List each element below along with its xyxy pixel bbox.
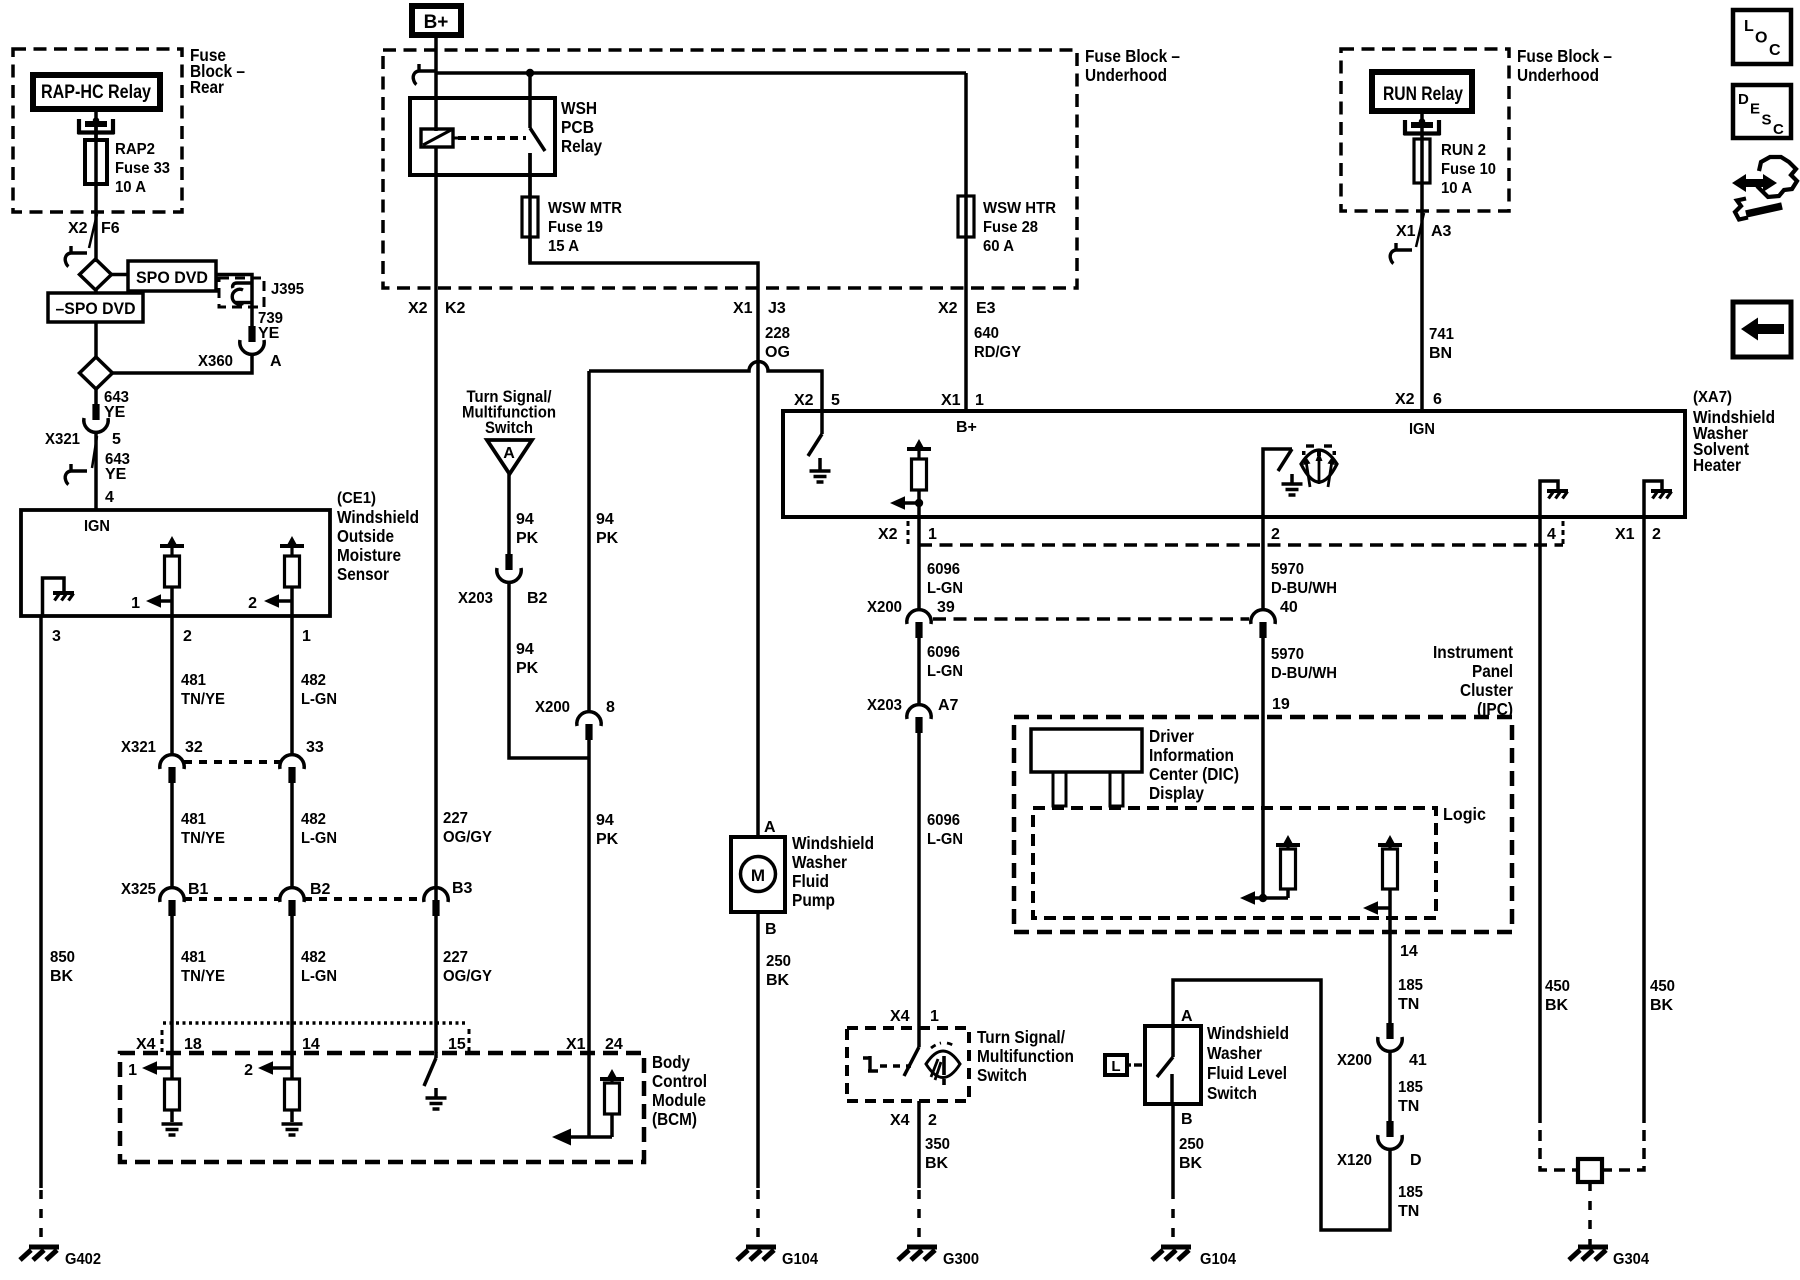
svg-text:Fuse 33: Fuse 33 [115,160,170,177]
svg-text:2: 2 [248,595,257,612]
svg-text:L: L [1111,1058,1120,1075]
svg-text:481: 481 [181,672,206,689]
svg-text:X321: X321 [45,431,80,448]
svg-text:250: 250 [766,953,791,970]
ground G304 [1569,1247,1608,1260]
svg-text:94: 94 [516,511,534,528]
heater internal ground pin X1/2 [1644,481,1662,517]
wire X360 to splice S2 [112,354,252,373]
ground G300 [898,1247,937,1260]
svg-text:G304: G304 [1613,1251,1649,1268]
svg-text:Fluid Level: Fluid Level [1207,1063,1287,1083]
svg-text:B3: B3 [452,880,473,897]
svg-text:A3: A3 [1431,223,1452,240]
wire 643 YE to sensor [94,432,98,510]
svg-text:X203: X203 [867,697,902,714]
svg-text:450: 450 [1650,978,1675,995]
svg-text:M: M [751,866,765,885]
svg-text:2: 2 [244,1062,253,1079]
svg-text:A: A [503,445,515,462]
svg-text:Switch: Switch [485,418,533,437]
fuse RUN 2 Fuse 10 10A [1414,139,1430,183]
wire 350 BK [917,1101,921,1188]
svg-text:Rear: Rear [190,77,224,97]
svg-text:G104: G104 [1200,1251,1236,1268]
svg-text:450: 450 [1545,978,1570,995]
svg-text:SPO DVD: SPO DVD [136,268,208,287]
svg-text:B: B [765,921,777,938]
svg-text:O: O [1755,30,1767,47]
svg-text:(CE1): (CE1) [337,490,376,507]
BCM switch ground [426,1098,447,1109]
splice pack connector [1578,1159,1602,1182]
L box tab [1127,1063,1131,1066]
junction [1259,894,1267,902]
svg-text:D-BU/WH: D-BU/WH [1271,580,1337,597]
heater internal ground pin 4 [1540,481,1558,517]
svg-text:X1: X1 [566,1036,586,1053]
coil nub [453,137,458,140]
svg-text:481: 481 [181,949,206,966]
svg-text:B+: B+ [956,419,977,436]
connector X200 pin 40 [1251,610,1275,638]
connector X321 pin 5 [84,404,108,432]
svg-text:2: 2 [1652,526,1661,543]
fuse WSW HTR Fuse 28 60A [958,196,974,237]
svg-text:482: 482 [301,811,326,828]
svg-text:3: 3 [52,628,61,645]
svg-text:Information: Information [1149,745,1234,765]
X4 dotted connector line [163,1021,467,1025]
fuse RAP2 Fuse 33 10A [85,140,107,184]
back arrow [1741,318,1784,341]
sensor driver 2 [280,536,304,546]
svg-text:L: L [1744,18,1754,35]
wire 94 PK riser [587,371,591,712]
wire 350 BK dashed [917,1190,921,1245]
wire 94 PK 2 [509,582,589,758]
svg-text:Windshield: Windshield [1207,1023,1289,1043]
svg-text:39: 39 [937,599,955,616]
svg-text:Washer: Washer [1207,1043,1262,1063]
svg-text:L-GN: L-GN [301,691,337,708]
svg-text:BK: BK [925,1155,949,1172]
wire 250 BK level dashed [1171,1190,1175,1245]
svg-text:6: 6 [1433,391,1442,408]
heater internal driver [907,439,931,449]
svg-text:D: D [1410,1152,1422,1169]
relay linkage dashed [458,136,526,140]
svg-text:F6: F6 [101,220,120,237]
wire splice to -SPO DVD [94,290,98,293]
wire switch to corner [528,153,532,263]
svg-text:X200: X200 [1337,1052,1372,1069]
svg-text:BK: BK [50,968,74,985]
svg-text:1: 1 [928,526,937,543]
wire through fuse [94,123,98,212]
wire 185 TN loop to level switch [1173,980,1390,1230]
X325 dashed link 1 [184,897,281,901]
junction [915,499,923,507]
wire 482 L-GN [290,616,294,755]
connector X203 pin B2 [497,554,521,582]
svg-text:B1: B1 [188,881,209,898]
svg-text:6096: 6096 [927,561,960,578]
pump motor M [741,857,776,892]
wire 5970 D-BU/WH [1261,517,1265,610]
svg-text:60 A: 60 A [983,238,1014,255]
svg-text:RAP2: RAP2 [115,141,155,158]
arrow output 1 [146,594,161,608]
svg-text:Moisture: Moisture [337,545,401,565]
svg-text:185: 185 [1398,1079,1423,1096]
pin slant X1/A3 [1416,213,1424,247]
svg-text:X120: X120 [1337,1152,1372,1169]
heater ground 2 [1282,484,1303,495]
svg-text:X2: X2 [938,300,958,317]
clip at X1/A3 [1390,243,1412,264]
coil diagonal [423,130,451,145]
wire 741 BN [1420,111,1424,411]
heater mini ground 1 [1547,491,1568,499]
IPC driver 2 [1378,835,1402,845]
svg-text:4: 4 [105,489,114,506]
svg-text:RAP-HC Relay: RAP-HC Relay [41,82,151,103]
svg-text:40: 40 [1280,599,1298,616]
svg-text:Fuse Block –: Fuse Block – [1517,46,1612,66]
washer switch contact [863,1056,878,1071]
wire 6096 L-GN [917,517,921,610]
wire 94 PK [507,474,511,554]
wire B+ bus [436,71,966,75]
svg-text:X4: X4 [890,1112,910,1129]
wire 185 TN [1388,932,1392,1024]
wire 185 TN 2 [1388,1051,1392,1121]
svg-text:B+: B+ [424,12,449,33]
arrow BCM washer input [552,1129,571,1146]
windshield outside moisture sensor box CE1 [21,510,330,616]
svg-text:E: E [1750,101,1760,118]
svg-text:Fluid: Fluid [792,871,829,891]
svg-text:94: 94 [516,641,534,658]
svg-text:L-GN: L-GN [927,831,963,848]
svg-text:X325: X325 [121,881,156,898]
divider 15 [468,1029,471,1052]
connector X200 pin 8 [577,712,601,740]
svg-text:(XA7): (XA7) [1693,389,1732,406]
svg-text:WSW MTR: WSW MTR [548,200,622,217]
svg-text:G402: G402 [65,1251,101,1268]
svg-text:B: B [1181,1111,1193,1128]
wire 481 TN/YE 3 [170,915,174,1053]
svg-text:4: 4 [1547,526,1556,543]
wire 6096 L-GN 3 [917,732,921,1028]
wire 6096 L-GN 2 [917,637,921,705]
svg-text:2: 2 [1271,526,1280,543]
svg-text:6096: 6096 [927,812,960,829]
svg-text:WSW HTR: WSW HTR [983,200,1056,217]
connector X120 pin D [1378,1121,1402,1149]
wire 450 BK left dashed [1540,1112,1578,1170]
wire 250 BK dashed [756,1190,760,1245]
svg-text:185: 185 [1398,1184,1423,1201]
svg-text:Fuse Block –: Fuse Block – [1085,46,1180,66]
wire 640 RD/GY full [964,73,968,411]
body control module dashed box [120,1053,644,1162]
svg-text:250: 250 [1179,1136,1204,1153]
splice S1 [80,259,112,290]
svg-text:5970: 5970 [1271,561,1304,578]
svg-text:TN: TN [1398,996,1419,1013]
svg-text:2: 2 [928,1112,937,1129]
RAP-HC Relay box [33,75,160,109]
wire fuse to splice [94,212,98,262]
sensor driver 1 [160,536,184,546]
svg-text:5: 5 [831,392,840,409]
svg-text:K2: K2 [445,300,466,317]
wire splice to X321 [94,389,98,405]
level switch blade [1171,1026,1175,1057]
svg-text:PK: PK [516,660,539,677]
svg-text:WSH: WSH [561,98,597,118]
wire -SPO DVD to splice S2 [94,322,98,357]
svg-text:X2: X2 [68,220,88,237]
wire 482 L-GN 3 [290,915,294,1053]
wire 250 BK level [1171,1104,1175,1190]
arrow output 2 [264,594,279,608]
svg-text:94: 94 [596,511,614,528]
svg-text:482: 482 [301,672,326,689]
svg-text:Instrument: Instrument [1433,642,1513,662]
svg-text:640: 640 [974,325,999,342]
svg-text:Fuse 10: Fuse 10 [1441,161,1496,178]
connector X325 pin B3 [424,888,448,916]
connector X203 pin A7 [907,705,931,733]
svg-text:1: 1 [302,628,311,645]
svg-text:TN: TN [1398,1203,1419,1220]
svg-text:E3: E3 [976,300,996,317]
heater mini ground 2 [1651,491,1672,499]
svg-text:D-BU/WH: D-BU/WH [1271,665,1337,682]
svg-text:Sensor: Sensor [337,564,389,584]
wire 850 BK [39,616,43,1188]
ground G104 right [1152,1247,1191,1260]
svg-text:Relay: Relay [561,136,602,156]
windshield washer solvent heater box XA7 [783,411,1685,517]
svg-text:1: 1 [128,1062,137,1079]
svg-text:X2: X2 [1395,391,1415,408]
svg-text:–SPO DVD: –SPO DVD [56,299,136,318]
svg-text:D: D [1738,91,1749,108]
svg-text:OG: OG [765,344,790,361]
arrow IPC 1 [1240,891,1255,905]
svg-text:14: 14 [1400,943,1418,960]
DIC display legs [1053,772,1066,806]
connector J395 symbol [232,283,251,304]
svg-text:A: A [764,819,776,836]
svg-text:TN/YE: TN/YE [181,968,225,985]
svg-text:X4: X4 [890,1008,910,1025]
svg-text:15 A: 15 A [548,238,579,255]
-SPO DVD box [48,293,143,322]
windshield washer fluid level switch box [1145,1026,1201,1104]
svg-text:Switch: Switch [977,1065,1027,1085]
svg-text:X2: X2 [878,526,898,543]
connector X321 pin 32 [160,755,184,783]
svg-text:X321: X321 [121,739,156,756]
icon box LOC [1733,10,1791,64]
arrow B+ out [890,496,905,510]
svg-text:Body: Body [652,1052,690,1072]
wire to SPO DVD [111,273,128,277]
svg-text:RUN 2: RUN 2 [1441,142,1486,159]
svg-text:B2: B2 [310,881,331,898]
washer switch blade [917,1028,921,1047]
svg-text:X1: X1 [1615,526,1635,543]
svg-text:X2: X2 [408,300,428,317]
svg-text:PCB: PCB [561,117,594,137]
wire 227 OG/GY full [434,175,438,1053]
svg-text:Underhood: Underhood [1517,65,1599,85]
fuse block rear dashed box [13,49,182,212]
wire B+ to relay coil [434,35,438,131]
wire 450 BK right dashed [1602,1112,1644,1170]
washer heat icon [1301,446,1337,487]
wire relay to fuse [94,109,98,140]
BCM ground 1 [162,1124,183,1135]
wire to G304 dashed [1588,1182,1592,1245]
svg-text:Outside: Outside [337,526,394,546]
svg-text:G300: G300 [943,1251,979,1268]
svg-text:BK: BK [1650,997,1674,1014]
svg-text:J395: J395 [271,281,304,298]
clip below X321 [65,464,87,485]
svg-text:Logic: Logic [1443,804,1486,824]
pin slant X2/F6 [89,214,97,248]
svg-text:2: 2 [183,628,192,645]
svg-text:227: 227 [443,949,468,966]
svg-text:X200: X200 [867,599,902,616]
svg-text:41: 41 [1409,1052,1427,1069]
X200 dashed link [933,617,1249,621]
logic dashed box [1033,808,1436,918]
svg-text:Cluster: Cluster [1460,680,1513,700]
svg-text:PK: PK [596,530,619,547]
svg-text:Windshield: Windshield [792,833,874,853]
svg-text:Driver: Driver [1149,726,1194,746]
svg-text:5: 5 [112,431,121,448]
svg-text:Windshield: Windshield [337,507,419,527]
svg-text:X2: X2 [794,392,814,409]
wire SPO DVD to J395 [216,275,252,328]
svg-text:15: 15 [448,1036,466,1053]
svg-text:185: 185 [1398,977,1423,994]
svg-text:RD/GY: RD/GY [974,344,1021,361]
svg-text:X1: X1 [1396,223,1416,240]
connector X321 pin 33 [280,755,304,783]
svg-text:X4: X4 [136,1036,156,1053]
wire coil to box edge [434,147,438,175]
svg-text:C: C [1773,121,1784,138]
svg-text:G104: G104 [782,1251,818,1268]
DIC display box [1031,729,1142,772]
IPC driver 1 [1276,835,1300,845]
svg-text:TN/YE: TN/YE [181,691,225,708]
clip at B+ entry [413,64,435,85]
fuse holder RAP2 [78,117,115,134]
svg-text:J3: J3 [768,300,786,317]
svg-text:8: 8 [606,699,615,716]
svg-text:BK: BK [1545,997,1569,1014]
SPO DVD box [128,261,216,291]
wire 94 PK to BCM [587,738,591,1053]
splice S2 [80,357,113,389]
connector X360 pin A [240,326,264,354]
wire 5970 D-BU/WH 2 [1261,637,1265,898]
svg-text:228: 228 [765,325,790,342]
heater ground 1 [810,471,831,482]
svg-text:5970: 5970 [1271,646,1304,663]
svg-text:IGN: IGN [84,518,110,535]
svg-text:PK: PK [516,530,539,547]
switch linkage dashed [880,1064,911,1067]
BCM input 1 [142,1061,157,1075]
level sensor L box [1105,1055,1127,1075]
svg-text:OG/GY: OG/GY [443,968,492,985]
wire 850 BK dashed [39,1190,43,1245]
pin slant X321/5 [92,436,97,468]
fuse holder RUN2 [1404,118,1441,135]
wire 94 PK horizontal with hop [589,362,822,412]
svg-text:Underhood: Underhood [1085,65,1167,85]
svg-text:94: 94 [596,812,614,829]
wire 250 BK pump [756,912,760,1188]
BCM switch to ground [434,1052,438,1058]
BCM washer input driver [587,1053,591,1137]
fuse WSW MTR Fuse 19 15A [522,197,538,237]
svg-text:Fuse 19: Fuse 19 [548,219,603,236]
svg-text:(IPC): (IPC) [1477,699,1513,719]
svg-text:BN: BN [1429,345,1452,362]
svg-text:Washer: Washer [792,852,847,872]
svg-text:OG/GY: OG/GY [443,829,492,846]
svg-text:Multifunction: Multifunction [977,1046,1074,1066]
BCM ground 2 [282,1124,303,1135]
wire 481 TN/YE 2 [170,782,174,888]
svg-text:L-GN: L-GN [301,968,337,985]
divider 4 [1562,521,1565,547]
svg-text:10 A: 10 A [115,179,146,196]
svg-text:24: 24 [605,1036,623,1053]
WSH PCB relay box [410,98,555,175]
fuse block underhood dashed box [383,50,1077,288]
B+ power box [412,6,461,35]
sensor internal ground [53,593,74,601]
wire 482 L-GN 2 [290,782,294,888]
divider X4 [161,1030,164,1052]
svg-text:14: 14 [302,1036,320,1053]
heater internal switch to ground [820,411,824,434]
svg-text:Fuse 28: Fuse 28 [983,219,1038,236]
svg-text:Control: Control [652,1071,707,1091]
svg-text:Switch: Switch [1207,1083,1257,1103]
wire 481 TN/YE [170,616,174,755]
svg-text:L-GN: L-GN [301,830,337,847]
svg-text:X200: X200 [535,699,570,716]
svg-text:227: 227 [443,810,468,827]
svg-text:Pump: Pump [792,890,835,910]
BCM input 2 [258,1061,273,1075]
